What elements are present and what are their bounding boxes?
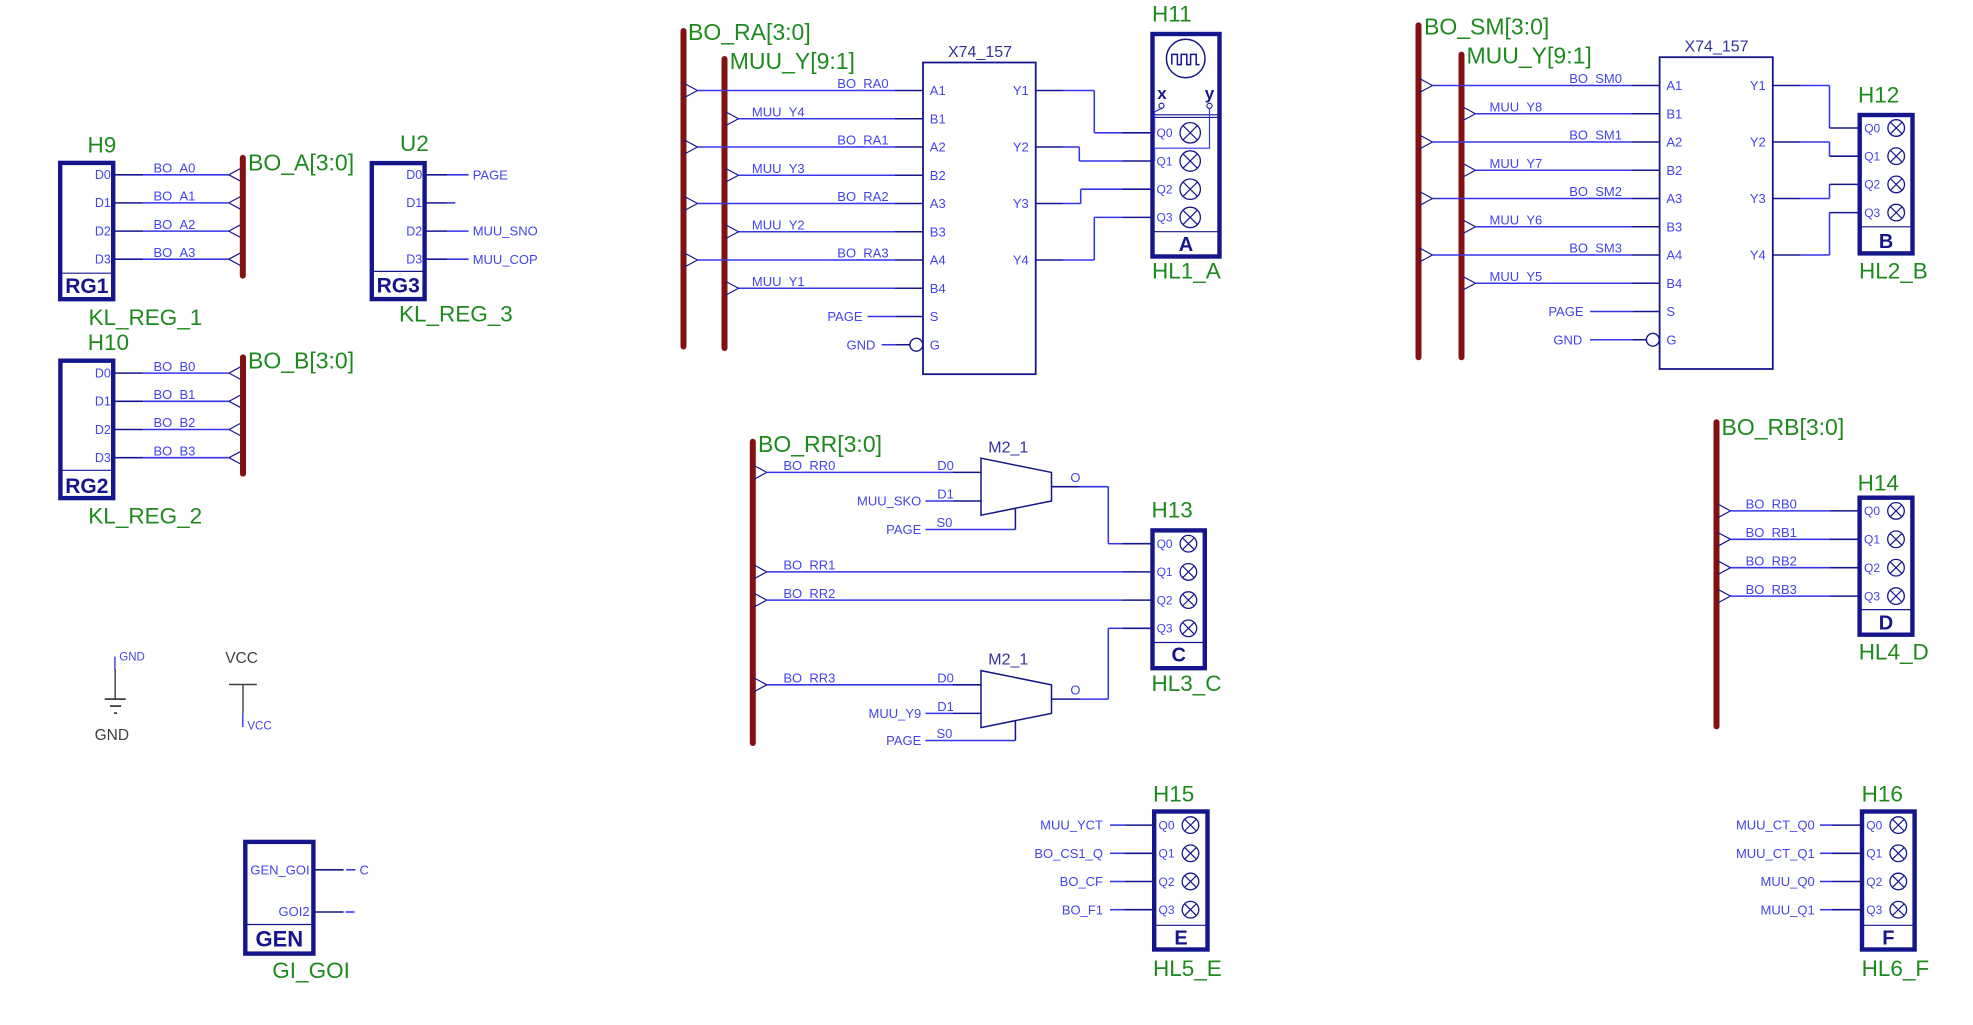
lamp Q0 of H13 xyxy=(1180,535,1197,552)
wire MUU_Q0 xyxy=(1820,881,1860,883)
lamp Q1 of H15 xyxy=(1182,845,1199,862)
svg-text:BO_RB0: BO_RB0 xyxy=(1746,497,1797,512)
svg-text:D1: D1 xyxy=(95,395,111,409)
bus BO_A[3:0] xyxy=(240,158,246,276)
svg-text:Y1: Y1 xyxy=(1013,83,1029,98)
wire at U2 D1 xyxy=(427,202,456,204)
svg-text:Q2: Q2 xyxy=(1159,875,1175,889)
svg-text:HL5_E: HL5_E xyxy=(1153,956,1222,981)
svg-text:A3: A3 xyxy=(930,196,946,211)
wire BO_B0 xyxy=(115,366,242,380)
svg-text:B4: B4 xyxy=(1666,276,1682,291)
svg-text:KL_REG_1: KL_REG_1 xyxy=(89,305,203,330)
svg-text:U2: U2 xyxy=(400,131,429,156)
lamp Q2 of H15 xyxy=(1182,873,1199,890)
wire Y2 of left mux to H11 Q1 xyxy=(1036,147,1151,161)
svg-text:VCC: VCC xyxy=(247,721,271,733)
svg-text:Q2: Q2 xyxy=(1157,183,1173,197)
svg-text:BO_SM[3:0]: BO_SM[3:0] xyxy=(1424,14,1549,40)
svg-text:MUU_Y7: MUU_Y7 xyxy=(1490,156,1543,171)
wire MUU_CT_Q1 xyxy=(1820,852,1860,854)
wire BO_RA1 xyxy=(685,140,923,154)
wire GND to G (left mux) xyxy=(882,344,910,346)
H11 pulse waveform icon xyxy=(1172,54,1200,64)
wire MUU_Y9 xyxy=(925,712,981,714)
svg-text:HL2_B: HL2_B xyxy=(1859,259,1928,284)
wire Y4 of left mux to H11 Q3 xyxy=(1036,217,1151,260)
svg-text:F: F xyxy=(1882,928,1894,950)
svg-text:B3: B3 xyxy=(930,224,946,239)
svg-text:GEN_GOI: GEN_GOI xyxy=(250,863,309,878)
wire BO_RA0 xyxy=(685,84,923,98)
H11 oscillator circle xyxy=(1166,39,1205,78)
svg-text:BO_RB1: BO_RB1 xyxy=(1746,525,1797,540)
wire MUU_CT_Q0 xyxy=(1820,824,1860,826)
wire BO_RR0 xyxy=(754,466,981,480)
wire at GEN_GOI pin / net C xyxy=(315,869,355,871)
display H15 HL5_E symbol xyxy=(1154,812,1207,950)
svg-text:H10: H10 xyxy=(88,330,129,355)
svg-text:MUU_Y6: MUU_Y6 xyxy=(1490,212,1543,227)
svg-text:Y1: Y1 xyxy=(1750,78,1766,93)
H11 internal wire from y pin xyxy=(1155,108,1210,161)
H11 internal wire from x pin xyxy=(1155,108,1162,132)
svg-text:MUU_Y3: MUU_Y3 xyxy=(752,161,805,176)
wire BO_A0 xyxy=(115,168,241,182)
H11 y pin circle xyxy=(1207,103,1212,108)
svg-text:Q3: Q3 xyxy=(1157,622,1173,636)
svg-text:H12: H12 xyxy=(1858,83,1899,108)
lamp Q1 of H14 xyxy=(1888,531,1905,548)
svg-text:MUU_Y[9:1]: MUU_Y[9:1] xyxy=(730,48,855,74)
wire at GOI2 pin xyxy=(315,911,354,913)
wire BO_RB1 xyxy=(1718,532,1858,546)
wire BO_A1 xyxy=(115,196,241,210)
svg-text:GI_GOI: GI_GOI xyxy=(272,958,350,983)
svg-text:GND: GND xyxy=(119,652,145,664)
svg-text:BO_RB3: BO_RB3 xyxy=(1746,582,1797,597)
svg-text:D2: D2 xyxy=(406,224,422,238)
svg-text:S: S xyxy=(1666,304,1675,319)
svg-text:BO_RB2: BO_RB2 xyxy=(1746,553,1797,568)
wire at U2 D0 xyxy=(427,174,469,176)
svg-text:Q3: Q3 xyxy=(1159,903,1175,917)
svg-text:A2: A2 xyxy=(930,140,946,155)
svg-text:D3: D3 xyxy=(406,253,422,267)
wire MUU_YCT xyxy=(1110,824,1152,826)
svg-text:GND: GND xyxy=(95,727,129,744)
wire Y2 of right mux to H12 Q1 xyxy=(1773,142,1858,156)
lamp Q2 of H16 xyxy=(1890,873,1907,890)
mux M2_1 (upper) symbol xyxy=(981,458,1052,515)
svg-text:M2_1: M2_1 xyxy=(988,652,1028,669)
svg-text:Q3: Q3 xyxy=(1157,211,1173,225)
svg-text:Q3: Q3 xyxy=(1866,903,1882,917)
svg-text:GEN: GEN xyxy=(255,927,303,952)
svg-text:Y2: Y2 xyxy=(1013,140,1029,155)
svg-text:Q1: Q1 xyxy=(1864,150,1880,164)
wire BO_F1 xyxy=(1110,909,1152,911)
wire Y1 of right mux to H12 Q0 xyxy=(1773,86,1858,129)
svg-text:y: y xyxy=(1205,84,1215,103)
svg-text:X74_157: X74_157 xyxy=(1684,39,1748,56)
svg-text:BO_RA3: BO_RA3 xyxy=(837,246,888,261)
svg-text:BO_A[3:0]: BO_A[3:0] xyxy=(248,150,354,176)
svg-text:BO_SM2: BO_SM2 xyxy=(1569,184,1622,199)
bus BO_RB[3:0] xyxy=(1714,422,1720,726)
svg-text:BO_B[3:0]: BO_B[3:0] xyxy=(248,348,354,374)
wire BO_A2 xyxy=(115,224,241,238)
lamp Q3 of H15 xyxy=(1182,901,1199,918)
svg-text:S0: S0 xyxy=(937,515,953,530)
svg-text:BO_SM1: BO_SM1 xyxy=(1569,128,1622,143)
svg-text:BO_F1: BO_F1 xyxy=(1062,902,1103,917)
svg-text:MUU_Y9: MUU_Y9 xyxy=(869,706,922,721)
wire MUU_Y5 xyxy=(1463,276,1660,290)
svg-text:MUU_CT_Q1: MUU_CT_Q1 xyxy=(1736,846,1815,861)
svg-text:B2: B2 xyxy=(930,168,946,183)
svg-text:D2: D2 xyxy=(95,423,111,437)
svg-text:MUU_Y1: MUU_Y1 xyxy=(752,274,805,289)
svg-text:D0: D0 xyxy=(937,458,954,473)
svg-text:BO_CF: BO_CF xyxy=(1060,874,1103,889)
register U2 RG3 symbol xyxy=(372,163,425,299)
svg-text:Q0: Q0 xyxy=(1864,121,1880,135)
wire BO_A3 xyxy=(115,252,241,266)
svg-text:A1: A1 xyxy=(1666,78,1682,93)
svg-text:MUU_Q0: MUU_Q0 xyxy=(1761,874,1815,889)
wire O of upper M2_1 to H13 Q0 xyxy=(1052,487,1151,544)
wire at U2 D2 xyxy=(427,230,469,232)
wire PAGE to S0 (upper M2_1) xyxy=(925,508,1015,529)
H9 separator line xyxy=(63,272,112,274)
svg-text:BO_SM3: BO_SM3 xyxy=(1569,241,1622,256)
bus MUU_Y[9:1] (right) xyxy=(1459,55,1465,358)
svg-text:D1: D1 xyxy=(937,699,954,714)
wire at U2 D3 xyxy=(427,258,469,260)
svg-text:B: B xyxy=(1879,231,1893,253)
svg-text:MUU_CT_Q0: MUU_CT_Q0 xyxy=(1736,818,1815,833)
lamp Q3 of H11 xyxy=(1180,207,1200,227)
svg-text:Q1: Q1 xyxy=(1157,154,1173,168)
svg-text:BO_RA[3:0]: BO_RA[3:0] xyxy=(688,19,811,45)
svg-text:D0: D0 xyxy=(937,671,954,686)
lamp Q0 of H15 xyxy=(1182,817,1199,834)
wire PAGE to S0 (lower M2_1) xyxy=(925,721,1015,741)
svg-text:Q2: Q2 xyxy=(1157,593,1173,607)
svg-text:D1: D1 xyxy=(937,487,954,502)
wire MUU_SKO xyxy=(925,500,981,502)
svg-text:BO_SM0: BO_SM0 xyxy=(1569,71,1622,86)
svg-text:Q0: Q0 xyxy=(1866,818,1882,832)
svg-text:Q0: Q0 xyxy=(1864,504,1880,518)
svg-text:PAGE: PAGE xyxy=(886,733,921,748)
svg-text:MUU_COP: MUU_COP xyxy=(473,252,538,267)
svg-text:H9: H9 xyxy=(88,133,117,158)
bus BO_RA[3:0] xyxy=(681,31,687,347)
svg-text:KL_REG_2: KL_REG_2 xyxy=(88,504,202,529)
bus BO_SM[3:0] xyxy=(1416,25,1422,357)
svg-text:Y3: Y3 xyxy=(1013,196,1029,211)
multiplexer X74_157 (right) symbol xyxy=(1660,57,1773,369)
wire BO_RB3 xyxy=(1718,589,1858,603)
wire BO_SM0 xyxy=(1420,79,1660,93)
svg-text:BO_A0: BO_A0 xyxy=(154,161,196,176)
svg-text:BO_B2: BO_B2 xyxy=(154,415,196,430)
wire PAGE to S (left mux) xyxy=(868,316,923,318)
svg-text:MUU_Y4: MUU_Y4 xyxy=(752,104,805,119)
svg-text:HL3_C: HL3_C xyxy=(1152,671,1222,696)
svg-text:BO_RR[3:0]: BO_RR[3:0] xyxy=(758,431,882,457)
generator GEN symbol xyxy=(245,842,313,954)
wire MUU_Y7 xyxy=(1463,163,1660,177)
wire Y4 of right mux to H12 Q3 xyxy=(1773,213,1858,255)
svg-text:E: E xyxy=(1174,928,1187,950)
wire BO_B1 xyxy=(115,394,242,408)
svg-text:MUU_Y5: MUU_Y5 xyxy=(1490,269,1543,284)
svg-text:Q0: Q0 xyxy=(1159,818,1175,832)
U2 separator line xyxy=(374,270,423,272)
wire BO_SM2 xyxy=(1420,192,1660,206)
svg-text:H16: H16 xyxy=(1862,782,1903,807)
svg-text:BO_RR0: BO_RR0 xyxy=(783,458,835,473)
svg-text:O: O xyxy=(1070,470,1080,485)
svg-text:Q0: Q0 xyxy=(1157,537,1173,551)
H10 separator line xyxy=(63,469,112,471)
svg-text:C: C xyxy=(1171,645,1185,667)
wire BO_RB2 xyxy=(1718,561,1858,575)
H16 section line xyxy=(1862,924,1915,926)
svg-text:PAGE: PAGE xyxy=(473,167,508,182)
wire MUU_Y8 xyxy=(1463,107,1660,121)
svg-text:BO_RR3: BO_RR3 xyxy=(783,671,835,686)
wire Y3 of left mux to H11 Q2 xyxy=(1036,189,1151,203)
lamp Q3 of H13 xyxy=(1180,620,1197,637)
svg-text:S0: S0 xyxy=(937,726,953,741)
svg-text:D0: D0 xyxy=(95,168,111,182)
svg-text:M2_1: M2_1 xyxy=(988,439,1028,456)
svg-text:GND: GND xyxy=(1553,332,1582,347)
svg-text:MUU_YCT: MUU_YCT xyxy=(1040,818,1103,833)
display H12 HL2_B symbol xyxy=(1860,115,1913,253)
wire GND to G (right mux) xyxy=(1590,339,1646,341)
svg-text:VCC: VCC xyxy=(225,650,258,667)
wire BO_CF xyxy=(1110,881,1152,883)
display H16 HL6_F symbol xyxy=(1862,812,1915,950)
wire BO_RR1 xyxy=(754,565,1151,579)
svg-text:B4: B4 xyxy=(930,281,946,296)
lamp Q2 of H14 xyxy=(1888,559,1905,576)
svg-text:B2: B2 xyxy=(1666,163,1682,178)
svg-text:MUU_Q1: MUU_Q1 xyxy=(1761,902,1815,917)
svg-text:A2: A2 xyxy=(1666,135,1682,150)
lamp Q3 of H14 xyxy=(1888,588,1905,605)
svg-text:BO_RR2: BO_RR2 xyxy=(783,586,835,601)
wire O of lower M2_1 to H13 Q3 xyxy=(1052,628,1151,699)
wire Y3 of right mux to H12 Q2 xyxy=(1773,184,1858,198)
svg-text:MUU_SKO: MUU_SKO xyxy=(857,494,921,509)
svg-text:D3: D3 xyxy=(95,253,111,267)
lamp Q0 of H14 xyxy=(1888,503,1905,520)
svg-text:HL1_A: HL1_A xyxy=(1152,259,1221,284)
mux M2_1 (lower) symbol xyxy=(981,671,1052,728)
svg-text:Q1: Q1 xyxy=(1157,565,1173,579)
wire BO_RA2 xyxy=(685,197,923,211)
wire MUU_Q1 xyxy=(1820,909,1860,911)
lamp Q0 of H11 xyxy=(1180,123,1200,143)
svg-text:Q2: Q2 xyxy=(1864,178,1880,192)
lamp Q1 of H16 xyxy=(1890,845,1907,862)
svg-text:MUU_Y[9:1]: MUU_Y[9:1] xyxy=(1467,43,1592,69)
svg-text:BO_RB[3:0]: BO_RB[3:0] xyxy=(1722,414,1845,440)
svg-text:H15: H15 xyxy=(1153,782,1194,807)
lamp Q1 of H11 xyxy=(1180,151,1200,171)
svg-text:BO_A1: BO_A1 xyxy=(154,189,196,204)
multiplexer X74_157 (left) symbol xyxy=(923,63,1036,375)
svg-text:G: G xyxy=(930,337,940,352)
svg-text:D1: D1 xyxy=(406,196,422,210)
svg-text:PAGE: PAGE xyxy=(1548,304,1583,319)
wire BO_SM1 xyxy=(1420,135,1660,149)
wire BO_B2 xyxy=(115,423,242,437)
svg-text:A4: A4 xyxy=(1666,248,1682,263)
svg-text:BO_RA2: BO_RA2 xyxy=(837,189,888,204)
wire PAGE to S (right mux) xyxy=(1590,311,1660,313)
svg-text:BO_A2: BO_A2 xyxy=(154,217,196,232)
wire MUU_Y6 xyxy=(1463,220,1660,234)
register H10 RG2 symbol xyxy=(60,361,113,498)
svg-text:RG2: RG2 xyxy=(65,475,108,498)
H11 separator double line xyxy=(1153,115,1220,118)
svg-text:Q3: Q3 xyxy=(1864,206,1880,220)
svg-text:Y4: Y4 xyxy=(1750,248,1766,263)
wire Y1 of left mux to H11 Q0 xyxy=(1036,91,1151,133)
wire BO_SM3 xyxy=(1420,248,1660,262)
svg-text:Q2: Q2 xyxy=(1864,561,1880,575)
svg-text:A4: A4 xyxy=(930,253,946,268)
lamp Q3 of H12 xyxy=(1888,204,1905,221)
ground symbol GND xyxy=(105,657,126,714)
svg-text:MUU_SNO: MUU_SNO xyxy=(473,224,538,239)
wire BO_B3 xyxy=(115,451,242,465)
lamp Q2 of H11 xyxy=(1180,179,1200,199)
display H14 HL4_D symbol xyxy=(1860,498,1913,635)
H13 section line xyxy=(1153,642,1205,644)
svg-text:Q1: Q1 xyxy=(1159,847,1175,861)
H12 section line xyxy=(1860,226,1913,228)
wire BO_RA3 xyxy=(685,253,923,267)
bus BO_B[3:0] xyxy=(240,357,246,473)
bus BO_RR[3:0] xyxy=(750,442,756,743)
svg-text:B1: B1 xyxy=(930,111,946,126)
svg-text:GND: GND xyxy=(847,337,876,352)
wire BO_RR2 xyxy=(754,593,1151,607)
wire BO_RB0 xyxy=(1718,504,1858,518)
svg-text:MUU_Y2: MUU_Y2 xyxy=(752,217,805,232)
svg-text:Y3: Y3 xyxy=(1750,191,1766,206)
svg-text:A3: A3 xyxy=(1666,191,1682,206)
svg-text:BO_RR1: BO_RR1 xyxy=(783,558,835,573)
H15 section line xyxy=(1154,924,1207,926)
wire MUU_Y4 xyxy=(726,112,923,126)
svg-text:BO_RA1: BO_RA1 xyxy=(837,133,888,148)
lamp Q3 of H16 xyxy=(1890,901,1907,918)
lamp Q1 of H12 xyxy=(1888,148,1905,165)
lamp Q2 of H12 xyxy=(1888,176,1905,193)
display H13 HL3_C symbol xyxy=(1153,530,1205,668)
svg-text:O: O xyxy=(1070,683,1080,698)
svg-text:Q2: Q2 xyxy=(1866,875,1882,889)
svg-text:RG3: RG3 xyxy=(377,275,420,298)
svg-text:Q3: Q3 xyxy=(1864,589,1880,603)
svg-text:HL4_D: HL4_D xyxy=(1859,640,1929,665)
power symbol VCC xyxy=(229,685,257,728)
wire MUU_Y2 xyxy=(726,225,923,239)
display H11 HL1_A symbol xyxy=(1153,34,1220,257)
svg-text:B1: B1 xyxy=(1666,106,1682,121)
svg-text:KL_REG_3: KL_REG_3 xyxy=(399,302,513,327)
svg-text:PAGE: PAGE xyxy=(886,522,921,537)
svg-text:Q1: Q1 xyxy=(1864,533,1880,547)
wire MUU_Y1 xyxy=(726,281,923,295)
wire BO_CS1_Q xyxy=(1110,852,1152,854)
svg-text:BO_B3: BO_B3 xyxy=(154,443,196,458)
svg-text:MUU_Y8: MUU_Y8 xyxy=(1490,99,1543,114)
wire MUU_Y3 xyxy=(726,168,923,182)
bus MUU_Y[9:1] (left) xyxy=(722,59,728,348)
svg-text:BO_B0: BO_B0 xyxy=(154,359,196,374)
lamp Q0 of H12 xyxy=(1888,120,1905,137)
svg-text:Q1: Q1 xyxy=(1866,847,1882,861)
svg-text:H11: H11 xyxy=(1152,2,1192,27)
lamp Q1 of H13 xyxy=(1180,564,1197,581)
svg-text:RG1: RG1 xyxy=(65,275,109,298)
inverter bubble at G pin (right mux) xyxy=(1646,333,1659,346)
H11 section line xyxy=(1153,231,1220,233)
svg-text:S: S xyxy=(930,309,939,324)
lamp Q2 of H13 xyxy=(1180,592,1197,609)
svg-text:C: C xyxy=(360,862,369,877)
svg-text:GOI2: GOI2 xyxy=(279,904,310,919)
svg-text:B3: B3 xyxy=(1666,219,1682,234)
svg-text:BO_A3: BO_A3 xyxy=(154,245,196,260)
svg-text:G: G xyxy=(1666,332,1676,347)
svg-text:Q0: Q0 xyxy=(1157,126,1173,140)
svg-text:H14: H14 xyxy=(1858,471,1899,496)
svg-text:PAGE: PAGE xyxy=(827,309,862,324)
GEN separator line xyxy=(248,924,312,926)
svg-text:D0: D0 xyxy=(95,366,111,380)
svg-text:A: A xyxy=(1179,234,1193,256)
svg-text:X74_157: X74_157 xyxy=(948,44,1012,61)
svg-text:D: D xyxy=(1879,613,1893,635)
lamp Q0 of H16 xyxy=(1890,817,1907,834)
svg-text:Y2: Y2 xyxy=(1750,135,1766,150)
svg-text:BO_RA0: BO_RA0 xyxy=(837,76,888,91)
svg-text:D0: D0 xyxy=(406,168,422,182)
svg-text:BO_CS1_Q: BO_CS1_Q xyxy=(1034,846,1103,861)
svg-text:D3: D3 xyxy=(95,451,111,465)
svg-text:Y4: Y4 xyxy=(1013,253,1029,268)
svg-text:H13: H13 xyxy=(1152,498,1193,523)
H11 x pin circle xyxy=(1159,103,1164,108)
register H9 RG1 symbol xyxy=(60,163,113,299)
H14 section line xyxy=(1860,609,1913,611)
svg-text:HL6_F: HL6_F xyxy=(1862,956,1930,981)
svg-text:A1: A1 xyxy=(930,83,946,98)
wire BO_RR3 xyxy=(754,678,981,692)
svg-text:D1: D1 xyxy=(95,196,111,210)
